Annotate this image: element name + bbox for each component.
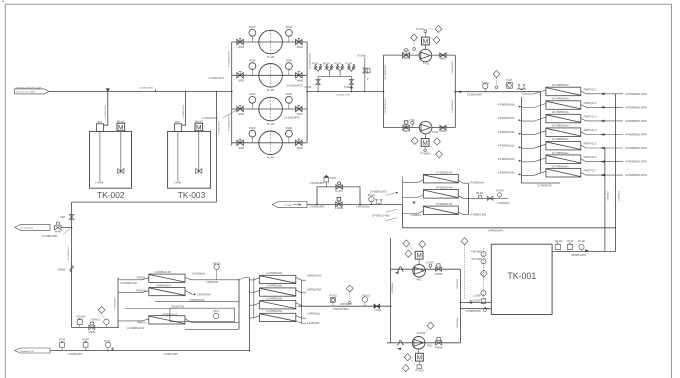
svg-text:P04W: P04W (286, 27, 293, 29)
wire: TK-001 suction line (461, 302, 492, 304)
pump PL-401 (259, 30, 283, 54)
wire: flag to column (61, 227, 72, 229)
svg-text:W-W4: W-W4 (82, 340, 89, 342)
instrument PI left P3 (249, 96, 256, 103)
svg-text:4-CS300-JP43: 4-CS300-JP43 (336, 95, 350, 97)
wire: E2 inlet (403, 195, 424, 198)
svg-text:LWFR020-WX: LWFR020-WX (307, 275, 322, 277)
svg-text:PW800: PW800 (439, 131, 447, 133)
wire: return vertical B (604, 148, 606, 252)
svg-text:2-W9500x4: 2-W9500x4 (457, 278, 459, 289)
svg-text:GRADE: GRADE (58, 269, 67, 272)
agitator motor TK-003 (195, 120, 204, 131)
wire: outlet HX1 (581, 91, 623, 94)
motor M P-412 below (425, 134, 427, 139)
svg-text:LP-W950 (1-4W): LP-W950 (1-4W) (372, 216, 389, 218)
wire: E1 outlet (458, 181, 468, 184)
svg-text:PW802: PW802 (402, 131, 410, 133)
wire: vegetable oil line (50, 350, 249, 352)
instrument PI right P3 (286, 96, 293, 103)
svg-text:PWRT-01-1: PWRT-01-1 (584, 88, 598, 91)
svg-text:TS-AB: TS-AB (578, 240, 585, 243)
PI square instrument on return (507, 83, 513, 89)
relief pair 1 (314, 65, 322, 72)
svg-text:2-CS300-JP43: 2-CS300-JP43 (105, 104, 107, 118)
wire: outlet HX6 (581, 159, 623, 162)
wire: inlet HX4 (522, 131, 546, 135)
svg-text:TK-001: TK-001 (507, 271, 536, 281)
heat exchanger F1 (118, 263, 239, 285)
svg-text:LP-W950(1-4W): LP-W950(1-4W) (470, 214, 487, 216)
svg-text:L/WFR5020x: L/WFR5020x (307, 313, 321, 315)
wire: branch down right of TK-003 to outlet header (215, 91, 217, 202)
valve discharge P3 (296, 105, 302, 111)
wire: main feed line (49, 90, 232, 92)
spec break jog (70, 266, 73, 273)
instrument TS-AB (579, 244, 584, 251)
svg-text:LP-W9500x4x: LP-W9500x4x (552, 164, 570, 168)
nozzle on TK-002 (96, 121, 103, 131)
valve discharge P-421 (435, 264, 441, 272)
svg-text:2-CS300-JP43: 2-CS300-JP43 (183, 104, 185, 118)
svg-text:W406: W406 (297, 81, 304, 83)
svg-text:PWRT-01-6: PWRT-01-6 (584, 156, 598, 159)
svg-text:4-PWR5050-JP43: 4-PWR5050-JP43 (625, 133, 647, 137)
svg-text:LP-CW500-4PC: LP-CW500-4PC (385, 98, 387, 113)
instrument above motor (424, 33, 426, 38)
wire: bank bottom return (522, 182, 561, 184)
svg-text:LP-W9500x4x: LP-W9500x4x (552, 110, 570, 114)
svg-text:WT-WW: WT-WW (77, 316, 86, 318)
svg-text:1-LPWRS0x50x: 1-LPWRS0x50x (266, 286, 283, 288)
instrument PI right P2 (286, 63, 293, 70)
arrow (397, 348, 402, 351)
heat exchanger LP-EXCH-1 (522, 83, 648, 96)
svg-text:LT/W22: LT/W22 (417, 333, 426, 335)
svg-text:CWFD2044: CWFD2044 (206, 282, 219, 284)
svg-text:LP-0986644-C: LP-0986644-C (68, 246, 70, 260)
svg-text:LP-W9500x4x: LP-W9500x4x (552, 83, 570, 87)
wire: bank inlet header A (522, 92, 541, 183)
svg-text:To Drain: To Drain (357, 55, 366, 58)
svg-text:1-WRS0(W): 1-WRS0(W) (497, 203, 510, 205)
svg-text:PWRT-01-2: PWRT-01-2 (584, 102, 598, 105)
svg-text:2-CS300-JP43: 2-CS300-JP43 (219, 120, 221, 134)
wire: F1 outlet (185, 277, 239, 279)
heat exchanger G3 (249, 298, 301, 309)
pump P-411 top (411, 25, 442, 65)
wire: F1 inlet (118, 278, 149, 280)
pump PL-402 (259, 64, 283, 88)
svg-text:WAW: WAW (55, 231, 62, 234)
wire: loop left edge (390, 238, 392, 343)
dip tube TK-003 (177, 131, 179, 181)
wire: outlet HX7 (581, 172, 623, 175)
svg-text:LP-CW500-4PC: LP-CW500-4PC (385, 64, 387, 79)
svg-text:4-CS300-JP43: 4-CS300-JP43 (139, 88, 153, 90)
pump row 1 (PL-401) (232, 27, 307, 59)
wire: row line (391, 268, 461, 270)
svg-text:1-LPWRS0x50x: 1-LPWRS0x50x (266, 311, 283, 313)
svg-text:4-PWRS0x50x: 4-PWRS0x50x (498, 157, 516, 161)
heat exchanger E3 (403, 204, 469, 217)
svg-text:(TP-WX): (TP-WX) (91, 320, 100, 322)
svg-text:2-CS300x4PTC: 2-CS300x4PTC (202, 118, 218, 120)
valve discharge P4 (296, 139, 302, 145)
valve discharge P-412 (440, 125, 446, 129)
svg-text:W407: W407 (297, 114, 304, 116)
svg-text:4-PWR5050-JP43: 4-PWR5050-JP43 (625, 146, 647, 150)
svg-text:PWRT-01-7: PWRT-01-7 (584, 170, 598, 173)
valve with handwheel after flag (55, 222, 62, 230)
svg-text:LT/W21: LT/W21 (426, 262, 435, 264)
svg-text:W409: W409 (297, 148, 304, 150)
nozzle on TK-003 (174, 121, 181, 131)
wire: inlet HX1 (522, 90, 546, 94)
agitator shaft TK-003 (196, 131, 202, 174)
wire: row 3 line (232, 108, 307, 110)
wire: right discharge header (306, 42, 308, 143)
flex joint (397, 341, 403, 345)
diamond with drop (346, 285, 353, 292)
heat exchanger LP-EXCH-3 (498, 110, 648, 123)
leader wire row3 left (223, 110, 237, 118)
svg-text:2-CW500x4PC: 2-CW500x4PC (452, 99, 454, 113)
arrow return HX2 (600, 106, 605, 109)
svg-text:PWF02x: PWF02x (137, 322, 147, 324)
arrow return HX1 (600, 93, 605, 96)
instrument PI left P2 (249, 63, 256, 70)
heat exchanger LP-EXCH-4 (498, 124, 648, 137)
diamond with dashed drop on return (493, 70, 500, 77)
wire: inlet HX6 (522, 158, 546, 162)
svg-text:L/WRD5(2044): L/WRD5(2044) (190, 300, 206, 302)
svg-text:TP-W: TP-W (104, 341, 111, 343)
svg-text:WAT: WAT (175, 121, 180, 124)
svg-text:4-PWR5050-JP43: 4-PWR5050-JP43 (625, 105, 647, 109)
svg-text:LP-W95001-4W: LP-W95001-4W (436, 188, 453, 190)
wire: relief subheader (318, 72, 351, 77)
svg-text:LLS/WT: LLS/WT (473, 296, 482, 298)
svg-text:LP-0986644-W2: LP-0986644-W2 (127, 328, 144, 330)
svg-text:WA-W2: WA-W2 (195, 120, 204, 123)
svg-text:TW-W1: TW-W1 (481, 83, 489, 85)
valve suction P4 (237, 139, 243, 145)
relief pair 3 (336, 65, 344, 72)
agitator shaft TK-002 (118, 131, 124, 174)
svg-text:C-W500x4: C-W500x4 (608, 190, 610, 201)
instrument circle on line (104, 319, 109, 324)
svg-text:W460: W460 (440, 59, 447, 61)
arrow (395, 272, 399, 274)
svg-text:(WPDR-WPC): (WPDR-WPC) (571, 255, 586, 257)
valve discharge P2 (296, 72, 302, 78)
wire: outlet HX5 (581, 145, 623, 148)
svg-text:5-Vegetable (Oil): 5-Vegetable (Oil) (20, 350, 35, 353)
svg-text:LP-0986644-W2: LP-0986644-W2 (120, 283, 137, 285)
arrow return HX7 (600, 174, 605, 177)
flex joint (397, 267, 403, 271)
svg-text:P-412: P-412 (432, 132, 439, 134)
svg-text:M: M (196, 124, 202, 131)
instrument PW-01 on chute line (369, 196, 374, 201)
heat exchanger G2 (249, 286, 322, 296)
svg-text:C-W500x4: C-W500x4 (618, 190, 620, 201)
wire: G collector (301, 280, 303, 323)
svg-text:TW-X01: TW-X01 (362, 296, 371, 298)
svg-text:L-W400: L-W400 (95, 182, 104, 184)
wire: E3 inlet (403, 211, 424, 214)
svg-text:LWFR02-4WX: LWFR02-4WX (307, 289, 322, 291)
node junction at bank (413, 202, 416, 205)
pump row 4 (PL-404) (232, 128, 307, 160)
svg-text:4-PWRS0x50x: 4-PWRS0x50x (498, 170, 516, 174)
pump P-412 bottom (411, 121, 442, 158)
outlet instruments row (468, 193, 508, 201)
holding loop rectangle (170, 308, 235, 321)
instrument TP-WI (567, 243, 572, 250)
svg-text:2-W800: 2-W800 (335, 208, 344, 210)
wire: F2 inlet (118, 291, 149, 293)
svg-text:PT-W22: PT-W22 (415, 370, 424, 372)
wire: inlet HX2 (522, 104, 546, 108)
svg-text:3xW02: 3xW02 (88, 332, 96, 334)
off-page flag: To Chute (272, 202, 307, 208)
wire: F-bank mid line (125, 307, 170, 309)
valve discharge P-411 (440, 53, 446, 57)
svg-text:TL-CHW: TL-CHW (284, 205, 292, 207)
tank TK-001 (491, 244, 552, 314)
heat exchanger G1 (239, 273, 322, 283)
wire: outlet HX2 (581, 105, 623, 108)
wire: line to TK-001 top (403, 227, 616, 229)
sample symbols on chute line (375, 200, 382, 205)
wire: return vertical A (615, 94, 617, 252)
svg-text:2-WRS0x50x: 2-WRS0x50x (356, 207, 370, 209)
off-page flag: Vegetable Oil (15, 348, 50, 353)
pump row 3 (PL-403) (202, 94, 307, 126)
svg-text:LP-W9500x4x: LP-W9500x4x (552, 124, 570, 128)
TK-001 left instruments dashed column (483, 248, 485, 306)
svg-text:2-WR50-WPC: 2-WR50-WPC (68, 354, 83, 356)
control valve suction P-411 (403, 49, 410, 58)
svg-text:1-PWRS0x50-2: 1-PWRS0x50-2 (161, 314, 178, 316)
instrument circle on line (105, 342, 110, 347)
svg-text:LP-09866-WPC: LP-09866-WPC (42, 236, 58, 238)
svg-text:WT-W: WT-W (59, 340, 66, 342)
svg-text:PSL-W03: PSL-W03 (472, 259, 483, 261)
svg-text:LP-0986644-PC: LP-0986644-PC (155, 272, 172, 274)
wire: bank inlet header (117, 278, 119, 328)
instrument TI on return (483, 83, 488, 88)
control valve suction P-412 (403, 121, 409, 130)
tank TK-003 (168, 131, 211, 188)
svg-text:DP-R0: DP-R0 (476, 193, 484, 195)
wire: row 4 line (232, 142, 307, 144)
svg-text:LP-W500x4x: LP-W500x4x (192, 274, 206, 276)
heat exchanger F3 (118, 314, 239, 330)
svg-text:4-PWRS0x50x: 4-PWRS0x50x (498, 130, 516, 134)
wire: chute main line (307, 204, 403, 206)
svg-text:1-PWRS0x50-2: 1-PWRS0x50-2 (156, 285, 173, 287)
wire: row line (387, 342, 461, 344)
svg-text:PWRT-01-3: PWRT-01-3 (584, 115, 598, 118)
wire: suction line to pumps (298, 305, 391, 307)
wire: E-bank outlet collector (467, 183, 469, 214)
diamonds P-422 (404, 354, 411, 361)
svg-text:TS-WW: TS-WW (496, 191, 505, 193)
svg-text:LP-W9500x4x: LP-W9500x4x (552, 137, 570, 141)
svg-text:P04W: P04W (286, 61, 293, 63)
diamond with dashed drop (98, 306, 105, 313)
svg-text:W402: W402 (238, 81, 245, 83)
svg-text:1-LPWRS0x50x: 1-LPWRS0x50x (266, 298, 283, 300)
motor M P-422 below (418, 349, 420, 353)
wire: collector vertical (238, 280, 240, 330)
svg-text:WAT: WAT (97, 121, 102, 124)
relief pair 2 (326, 65, 334, 72)
instrument box 2 on line (83, 341, 88, 350)
svg-text:LP-0986644-PID: LP-0986644-PID (309, 53, 311, 69)
svg-text:PWRT-01-4: PWRT-01-4 (584, 129, 598, 132)
svg-text:P04W: P04W (249, 61, 256, 63)
wire: loop right edge (460, 269, 462, 343)
motor M P-411 (424, 45, 426, 49)
agitator motor TK-002 (117, 120, 126, 131)
svg-text:P04W: P04W (249, 128, 256, 130)
svg-text:LP-W95001-4W: LP-W95001-4W (436, 172, 453, 174)
heat exchanger LP-EXCH-5 (498, 137, 648, 150)
vent stub on bypass (324, 175, 329, 187)
valve suction P3 (237, 105, 243, 111)
wire: row 2 line (232, 74, 307, 76)
svg-text:L-W400: L-W400 (173, 182, 182, 184)
wire: outlet HX3 (581, 118, 623, 121)
wire: E3 outlet (458, 212, 468, 215)
arrow return HX6 (600, 160, 605, 163)
pump P-422 row (387, 322, 461, 372)
svg-text:Raw Yarn Inc (XW): Raw Yarn Inc (XW) (16, 91, 35, 94)
off-page flag: Raw Yarn Inc (15, 86, 49, 94)
svg-text:LP-0986644-PID: LP-0986644-PID (228, 51, 230, 67)
heat exchanger LP-EXCH-6 (498, 151, 648, 164)
valve vertical on column (69, 215, 74, 220)
svg-text:W404: W404 (297, 47, 304, 49)
svg-text:4-PWRS0x50x: 4-PWRS0x50x (498, 116, 516, 120)
svg-text:2-CS300x4PTC: 2-CS300x4PTC (208, 78, 224, 80)
instrument circles at P-412 suction (411, 121, 414, 124)
heat exchanger F2 (118, 285, 211, 296)
diamonds P-421 (403, 240, 410, 247)
wire: F3 inlet (118, 319, 149, 321)
svg-text:CW800: CW800 (402, 58, 410, 60)
svg-text:TK-003: TK-003 (178, 190, 206, 200)
wire: middle bank frame (402, 177, 404, 228)
instrument PI left P4 (249, 130, 256, 137)
control valve on chute line (336, 198, 342, 207)
wire: TK-001 right inlet line (552, 251, 615, 253)
svg-text:PT-X02: PT-X02 (329, 296, 337, 298)
svg-text:LP Condensate: LP Condensate (20, 227, 33, 230)
heat exchanger E2 (403, 188, 469, 199)
svg-text:1-LPWRS0x50x: 1-LPWRS0x50x (266, 273, 283, 275)
svg-text:WA-W1: WA-W1 (117, 120, 126, 123)
valve discharge P-422 (436, 337, 442, 345)
wire: F3 outlet (185, 319, 239, 323)
svg-text:C-W9500x4: C-W9500x4 (115, 297, 117, 309)
arrow return HX4 (600, 133, 605, 136)
instrument TW-F02 (214, 264, 219, 269)
svg-text:4-W9500x4: 4-W9500x4 (392, 282, 394, 293)
svg-text:WPC/WPC: WPC/WPC (341, 304, 353, 306)
svg-text:4-PWR5050-JP43: 4-PWR5050-JP43 (625, 160, 647, 164)
valve on bypass top (336, 182, 343, 189)
wire: inlet HX5 (522, 144, 546, 148)
instrument PI left P1 (249, 29, 256, 36)
svg-text:TW-F02: TW-F02 (212, 263, 221, 265)
svg-text:2-WRS0xWPC: 2-WRS0xWPC (310, 207, 326, 209)
relief pair 4 (348, 65, 356, 72)
svg-text:2": 2" (367, 79, 369, 81)
svg-text:LP-0986644-PID: LP-0986644-PID (228, 115, 230, 131)
svg-text:W400: W400 (238, 47, 245, 49)
wire: tank outlet header (72, 201, 217, 203)
svg-text:4-LQGMV: 4-LQGMV (470, 300, 481, 302)
corner mark (2, 0, 4, 2)
wire: TK-001 lower line (461, 308, 492, 310)
svg-text:2-CS300x4PTC: 2-CS300x4PTC (284, 117, 300, 119)
instrument PT square (331, 298, 336, 307)
closed valve on suction (374, 304, 380, 309)
svg-text:PL-402: PL-402 (267, 90, 275, 92)
svg-text:P04W: P04W (249, 27, 256, 29)
svg-text:PL-W2: PL-W2 (335, 191, 343, 193)
svg-text:W403: W403 (238, 114, 245, 116)
wire: inlet risers (248, 278, 250, 351)
svg-text:PWF02x: PWF02x (137, 278, 147, 280)
valve on left drop (316, 76, 320, 91)
drain line with valve (363, 58, 370, 92)
diamonds P-412 (411, 137, 418, 144)
wire: inlet HX3 (522, 117, 546, 121)
svg-text:TI-448: TI-448 (344, 87, 351, 89)
wire: left suction header (231, 42, 233, 146)
instrument box on line (77, 318, 82, 327)
small sampler symbol (111, 348, 113, 351)
pump PL-403 (259, 97, 283, 121)
wire: row 1 line (232, 41, 307, 43)
svg-text:PL-404: PL-404 (267, 158, 275, 160)
svg-text:LP-W9500x4x: LP-W9500x4x (552, 151, 570, 155)
valve suction P1 (237, 38, 243, 44)
svg-text:PW-01: PW-01 (368, 195, 376, 197)
svg-text:PL-401: PL-401 (267, 57, 275, 59)
svg-text:2-W95001: 2-W95001 (411, 215, 422, 217)
diamond level TK-001 (480, 270, 487, 277)
svg-text:W408: W408 (238, 148, 245, 150)
wire: F2 return line (155, 301, 239, 303)
svg-text:WAT: WAT (61, 216, 66, 219)
wire: bypass loop (317, 187, 360, 204)
svg-text:4-PWRS0x50x: 4-PWRS0x50x (498, 103, 516, 107)
arrow into loop (457, 90, 461, 93)
svg-text:4-PWR5050-JP43: 4-PWR5050-JP43 (625, 92, 647, 96)
instrument on loop (214, 313, 219, 318)
wire: branch to TK-003 (182, 91, 186, 125)
wire: loop rectangle (384, 55, 456, 128)
diamond interlocks P-411 (435, 25, 442, 32)
wire: E2 outlet (458, 196, 468, 199)
